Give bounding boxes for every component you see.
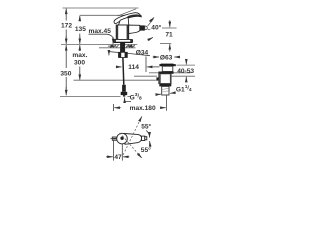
tube thread diameter arrow left: [156, 93, 161, 95]
Ø34 label with leader to shank: [109, 49, 150, 56]
mounting nut: [119, 52, 128, 57]
svg-text:Ø63: Ø63: [160, 55, 173, 62]
G 3/8 label with leader: [125, 92, 142, 102]
waste mounting ring: [158, 72, 173, 74]
55 degree dashed line upper: [123, 116, 142, 154]
svg-text:max.180: max.180: [130, 105, 156, 112]
extension line (135 and 71 reference): [80, 14, 136, 16]
raised lever line: [118, 9, 136, 16]
supply hose: [122, 58, 125, 85]
hose end fitting: [121, 85, 128, 97]
dimension max.180: [113, 96, 166, 112]
faucet spout: [129, 25, 140, 33]
extension line top (172 reference): [63, 7, 139, 9]
svg-text:47: 47: [114, 154, 122, 161]
waste body below deck: [159, 74, 172, 84]
svg-text:max.45: max.45: [89, 28, 112, 35]
dimension 350: [65, 45, 67, 95]
svg-text:40-53: 40-53: [177, 68, 194, 75]
top view: centerline stub: [110, 138, 112, 140]
aerator: [140, 25, 148, 30]
deck bottom line: [99, 47, 136, 49]
G 1 1/4 label with leader: [170, 84, 192, 93]
svg-text:max.: max.: [72, 52, 87, 59]
dimension 135: [79, 16, 81, 44]
threaded shank: [120, 43, 125, 53]
deck hatch: [110, 45, 135, 48]
dimension max.300: [79, 45, 81, 80]
55 degree bottom arc arrow: [149, 141, 152, 147]
350 bottom reference line: [60, 96, 131, 98]
top view: aerator circle: [117, 133, 128, 144]
svg-text:G3/8: G3/8: [130, 92, 142, 102]
faucet lever handle: [114, 13, 141, 24]
top view: handle stub: [142, 136, 147, 140]
waste nut dark band: [159, 84, 171, 87]
label max.45 with leader: [89, 28, 114, 44]
dimension 172: [65, 9, 67, 45]
svg-text:172: 172: [61, 23, 72, 30]
55 degree top arc arrow: [146, 130, 149, 137]
max.300 bottom reference line: [74, 79, 157, 81]
svg-text:350: 350: [60, 70, 71, 77]
faucet cartridge pivot: [119, 17, 129, 25]
dimension 47: [106, 140, 129, 161]
waste deck top line: [149, 72, 191, 74]
top view: left stub: [112, 137, 117, 140]
Ø34 hole arrows in deck: [108, 45, 135, 47]
40 degree wedge rays: [148, 19, 154, 29]
dimension 114: [116, 57, 160, 73]
faucet base: [114, 39, 133, 42]
dimension 71: [160, 20, 177, 51]
svg-text:114: 114: [128, 64, 139, 71]
40-53 top extension line: [177, 64, 196, 66]
svg-text:300: 300: [74, 60, 85, 67]
55 degree bottom label: [141, 146, 151, 154]
top view: body: [124, 134, 142, 145]
waste flange: [159, 64, 175, 67]
55 degree dashed line lower: [120, 133, 142, 158]
svg-text:40°: 40°: [151, 23, 161, 31]
svg-text:55°: 55°: [141, 122, 151, 130]
pop-up waste: Ø63 dimension: [153, 56, 180, 58]
svg-text:71: 71: [165, 32, 173, 39]
55 degree top label: [141, 122, 151, 130]
waste tailpipe tube: [162, 86, 169, 95]
waste side inlet: [156, 77, 159, 80]
svg-text:55°: 55°: [141, 146, 151, 154]
dimension 40-53: [185, 60, 187, 82]
waste neck: [162, 66, 173, 71]
deck top line: [61, 43, 137, 45]
svg-text:G11/4: G11/4: [176, 84, 192, 93]
faucet body: [116, 25, 129, 40]
top view: center dot: [120, 137, 123, 140]
svg-text:135: 135: [75, 26, 86, 33]
waste deck bottom line: [134, 75, 195, 77]
